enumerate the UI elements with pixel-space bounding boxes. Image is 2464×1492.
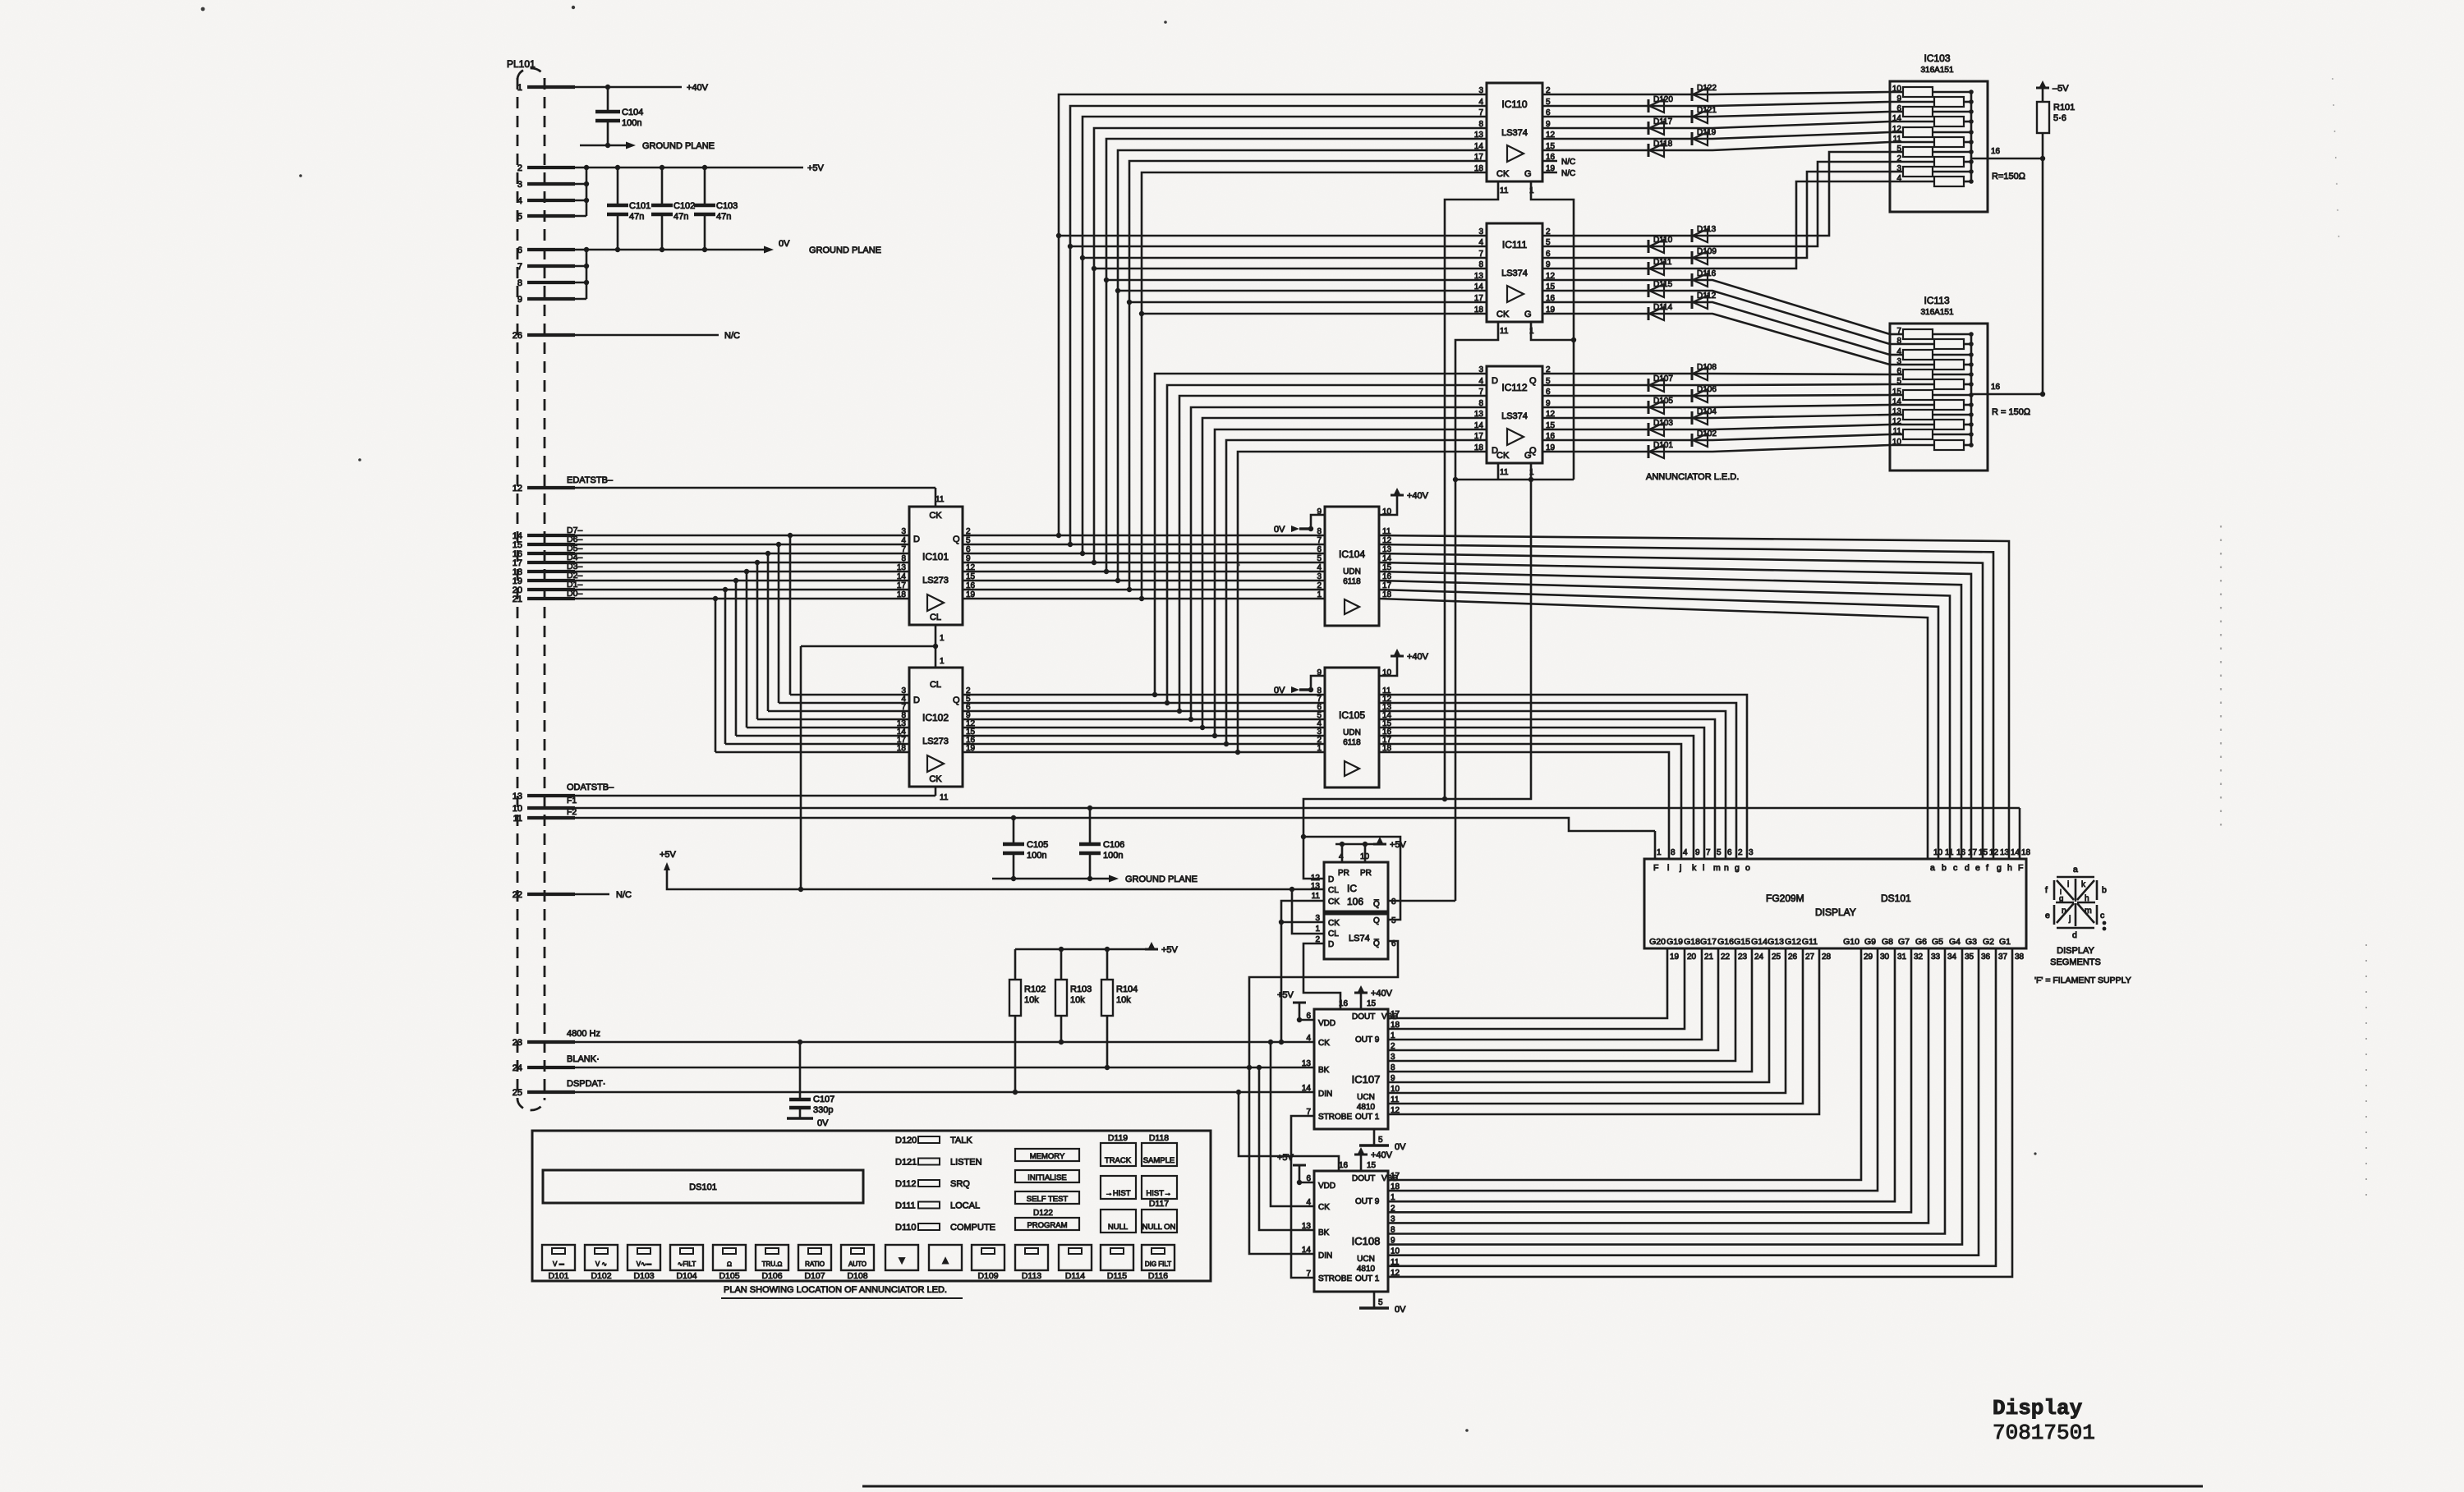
svg-text:1: 1 — [940, 634, 945, 643]
svg-text:GROUND PLANE: GROUND PLANE — [1125, 875, 1198, 884]
svg-text:G17: G17 — [1700, 937, 1717, 947]
svg-text:RATIO: RATIO — [805, 1260, 825, 1268]
svg-text:10: 10 — [1933, 848, 1943, 857]
svg-text:IC108: IC108 — [1352, 1235, 1381, 1247]
svg-text:BK: BK — [1318, 1066, 1330, 1075]
svg-text:D111: D111 — [895, 1201, 916, 1211]
power +5V (IC106 PR) — [1335, 843, 1377, 846]
svg-text:G7: G7 — [1898, 937, 1910, 947]
svg-text:12: 12 — [1989, 848, 1999, 857]
svg-text:Q: Q — [953, 696, 960, 705]
svg-text:j: j — [1679, 863, 1681, 873]
svg-text:▼: ▼ — [897, 1254, 908, 1266]
svg-text:36: 36 — [1981, 953, 1991, 962]
svg-text:33: 33 — [1931, 953, 1941, 962]
LED diode D108 — [1691, 367, 1694, 380]
svg-text:100n: 100n — [1103, 851, 1123, 861]
svg-text:13: 13 — [897, 563, 907, 572]
svg-text:4: 4 — [1339, 852, 1344, 861]
flip-flop IC106 LS74 — [1324, 862, 1388, 911]
wire IC113 common rail — [1970, 334, 1973, 445]
svg-text:▲: ▲ — [940, 1254, 951, 1266]
svg-text:D121: D121 — [895, 1158, 917, 1168]
resistor R103 — [1055, 980, 1067, 1016]
capacitor C105 — [1013, 818, 1015, 844]
svg-text:70817501: 70817501 — [1993, 1421, 2095, 1445]
svg-text:18: 18 — [897, 590, 907, 599]
svg-text:C104: C104 — [622, 108, 643, 117]
panel display window DS101 — [543, 1170, 863, 1203]
panel key NULL ON — [1142, 1210, 1177, 1233]
svg-text:0V: 0V — [1395, 1305, 1406, 1315]
svg-text:DSPDAT·: DSPDAT· — [567, 1079, 605, 1089]
svg-text:10k: 10k — [1024, 995, 1039, 1005]
svg-text:25: 25 — [1772, 953, 1781, 962]
svg-text:10: 10 — [513, 804, 522, 814]
LED diode D101 — [1648, 445, 1650, 458]
wire IC110 G chain — [1531, 181, 1574, 480]
svg-text:21: 21 — [1704, 953, 1714, 962]
panel button D107 — [798, 1245, 831, 1270]
wire data D4 row A — [546, 562, 909, 564]
svg-text:316A151: 316A151 — [1921, 308, 1954, 317]
ground 0V (IC105) — [1311, 676, 1325, 690]
power +40V (IC107) — [1360, 993, 1363, 1009]
svg-text:17: 17 — [1474, 294, 1484, 303]
svg-text:LS74: LS74 — [1349, 934, 1370, 943]
driver IC104 UDN6118 — [1325, 507, 1379, 626]
svg-text:m: m — [1713, 863, 1721, 873]
svg-text:34: 34 — [1947, 953, 1957, 962]
svg-text:COMPUTE: COMPUTE — [950, 1223, 995, 1233]
svg-text:7: 7 — [1317, 536, 1322, 545]
svg-text:STROBE: STROBE — [1318, 1113, 1352, 1122]
svg-text:HIST→: HIST→ — [1146, 1189, 1171, 1198]
svg-text:ANNUNCIATOR L.E.D.: ANNUNCIATOR L.E.D. — [1646, 472, 1739, 482]
svg-text:GROUND PLANE: GROUND PLANE — [642, 141, 715, 151]
svg-text:4: 4 — [1306, 1034, 1311, 1043]
svg-text:D109: D109 — [1697, 247, 1717, 256]
svg-text:h: h — [2007, 863, 2012, 873]
panel button D105 — [713, 1245, 746, 1270]
svg-text:Q: Q — [953, 535, 960, 544]
svg-text:+40V: +40V — [1407, 491, 1429, 501]
wire IC111 outputs to IC103 lower pins — [1542, 152, 1890, 236]
svg-text:1: 1 — [1657, 848, 1662, 857]
svg-text:21: 21 — [513, 595, 522, 604]
LED diode D104 — [1691, 411, 1694, 425]
svg-text:D118: D118 — [1149, 1133, 1169, 1143]
svg-text:DOUT: DOUT — [1352, 1012, 1375, 1021]
svg-text:14: 14 — [897, 572, 907, 581]
svg-text:5: 5 — [517, 212, 522, 222]
svg-text:1: 1 — [517, 83, 522, 93]
wire IC111 input branch — [1106, 279, 1487, 282]
wire BLANK line — [546, 1067, 1314, 1069]
svg-text:IC103: IC103 — [1924, 53, 1951, 64]
ground 0V (IC107) — [1373, 1129, 1376, 1145]
svg-text:5: 5 — [1317, 554, 1322, 563]
svg-text:CL: CL — [930, 613, 941, 622]
panel button D104 — [670, 1245, 703, 1270]
svg-text:PROGRAM: PROGRAM — [1027, 1221, 1067, 1230]
LED diode D118 — [1648, 144, 1650, 157]
svg-text:IC104: IC104 — [1339, 549, 1365, 560]
svg-text:OUT 9: OUT 9 — [1355, 1035, 1380, 1044]
svg-text:LOCAL: LOCAL — [950, 1201, 980, 1211]
svg-text:7: 7 — [1478, 108, 1483, 117]
svg-text:G9: G9 — [1864, 937, 1876, 947]
wire +5V to IC106 CL1 — [1289, 887, 1294, 892]
svg-text:14: 14 — [1474, 142, 1484, 151]
svg-text:N/C: N/C — [616, 890, 632, 900]
panel key &#8594;HIST — [1101, 1176, 1136, 1199]
svg-text:G5: G5 — [1932, 937, 1943, 947]
panel plan outline — [532, 1131, 1211, 1281]
panel button D114 — [1059, 1245, 1092, 1270]
panel button D115 — [1101, 1245, 1133, 1270]
svg-text:+5V: +5V — [660, 850, 677, 860]
svg-text:G3: G3 — [1965, 937, 1977, 947]
svg-text:G15: G15 — [1734, 937, 1750, 947]
svg-text:Q: Q — [1529, 446, 1537, 456]
svg-text:2: 2 — [517, 163, 522, 173]
wire IC106 Qbar8 to CK bus — [1388, 900, 1455, 902]
svg-text:1: 1 — [1317, 590, 1322, 599]
svg-text:D114: D114 — [1065, 1271, 1085, 1281]
svg-text:Q̅: Q̅ — [1373, 939, 1380, 948]
svg-text:F1: F1 — [567, 796, 577, 806]
svg-text:8: 8 — [1671, 848, 1676, 857]
LED diode D111 — [1648, 262, 1650, 275]
wire IC111 input branch — [1142, 313, 1487, 315]
wire pins 7-9 riser — [586, 250, 588, 299]
svg-text:D105: D105 — [719, 1271, 739, 1281]
wire IC103 common rail — [1970, 92, 1973, 181]
svg-text:F2: F2 — [567, 807, 577, 817]
svg-text:1: 1 — [1315, 925, 1320, 934]
svg-text:D101: D101 — [548, 1271, 568, 1281]
svg-text:18: 18 — [1474, 164, 1484, 173]
svg-text:IC101: IC101 — [922, 551, 949, 562]
svg-text:5·6: 5·6 — [2053, 113, 2066, 123]
wire IC101 CL link — [935, 625, 937, 668]
svg-text:OUT 9: OUT 9 — [1355, 1197, 1380, 1206]
svg-text:D102: D102 — [1697, 429, 1717, 438]
svg-text:DIG FILT: DIG FILT — [1145, 1260, 1171, 1268]
svg-text:LISTEN: LISTEN — [950, 1158, 982, 1168]
svg-text:D116: D116 — [1148, 1271, 1168, 1281]
svg-text:7: 7 — [901, 545, 906, 554]
ground 0V (IC108) — [1373, 1292, 1376, 1308]
svg-text:BK: BK — [1318, 1228, 1330, 1237]
wire 4800Hz to IC106 CK11 CK3 — [1281, 901, 1324, 1042]
svg-text:+40V: +40V — [687, 83, 709, 93]
svg-text:G20: G20 — [1649, 937, 1666, 947]
wire bus A verticals to IC110/IC111 — [1059, 94, 1487, 535]
wire +40V — [546, 86, 682, 89]
svg-text:CK: CK — [1318, 1203, 1330, 1212]
panel button D101 — [542, 1245, 575, 1270]
svg-text:D: D — [913, 696, 920, 705]
svg-text:3: 3 — [517, 180, 522, 190]
svg-text:TRACK: TRACK — [1105, 1156, 1132, 1165]
svg-text:31: 31 — [1897, 953, 1907, 962]
svg-text:N/C: N/C — [1561, 169, 1575, 178]
panel button D106 — [756, 1245, 788, 1270]
svg-text:C106: C106 — [1103, 840, 1124, 850]
svg-text:0V: 0V — [817, 1118, 829, 1128]
display DS101 FG209M — [1644, 859, 2026, 948]
svg-text:28: 28 — [1822, 953, 1832, 962]
svg-text:d: d — [2072, 930, 2077, 940]
svg-text:g: g — [2059, 894, 2063, 903]
svg-text:D106: D106 — [761, 1271, 782, 1281]
svg-text:UCN: UCN — [1357, 1255, 1375, 1264]
svg-text:D101: D101 — [1653, 441, 1673, 450]
svg-text:D117: D117 — [1653, 117, 1673, 126]
svg-text:8: 8 — [1478, 399, 1483, 408]
wire IC106 Q5 feedback loop — [1303, 837, 1400, 920]
svg-text:4: 4 — [901, 536, 906, 545]
svg-text:D110: D110 — [1653, 236, 1673, 245]
ground plane arrow (C104) — [580, 145, 626, 147]
wire D12 feedback net — [1303, 480, 1531, 879]
svg-text:F: F — [1653, 863, 1658, 873]
power +5V (pullups) — [1145, 948, 1158, 951]
svg-text:C101: C101 — [629, 201, 650, 211]
svg-text:5: 5 — [1378, 1136, 1383, 1145]
svg-text:CK: CK — [1496, 310, 1510, 319]
svg-text:C102: C102 — [673, 201, 695, 211]
svg-text:16: 16 — [1991, 383, 2001, 392]
svg-text:330p: 330p — [813, 1105, 833, 1115]
svg-text:D119: D119 — [1108, 1133, 1128, 1143]
capacitor C106 — [1089, 808, 1092, 844]
svg-text:LS273: LS273 — [922, 576, 949, 585]
svg-text:i: i — [1667, 863, 1669, 873]
latch IC111 LS374 — [1487, 223, 1542, 322]
svg-text:22: 22 — [1721, 953, 1731, 962]
svg-text:1: 1 — [940, 657, 945, 666]
svg-text:11: 11 — [513, 814, 522, 824]
svg-text:g: g — [1997, 863, 2002, 873]
svg-text:11: 11 — [1312, 892, 1321, 901]
svg-text:→HIST: →HIST — [1105, 1189, 1130, 1198]
svg-text:CK: CK — [929, 511, 942, 521]
svg-text:CK: CK — [1496, 451, 1510, 461]
svg-text:11: 11 — [1500, 327, 1509, 336]
svg-text:MEMORY: MEMORY — [1030, 1152, 1065, 1161]
svg-text:D104: D104 — [1697, 407, 1717, 416]
svg-text:D118: D118 — [1653, 140, 1673, 149]
wire IC111 input branch — [1118, 290, 1487, 292]
svg-text:D102: D102 — [591, 1271, 611, 1281]
svg-text:IC112: IC112 — [1501, 382, 1527, 393]
wire IC111 input branch — [1129, 301, 1487, 304]
svg-text:G12: G12 — [1785, 937, 1801, 947]
panel key SAMPLE — [1142, 1143, 1177, 1166]
svg-text:e: e — [1975, 863, 1980, 873]
svg-text:3: 3 — [1478, 227, 1483, 236]
svg-text:TRU.Ω: TRU.Ω — [762, 1260, 783, 1268]
svg-text:11: 11 — [1500, 186, 1509, 195]
svg-text:NULL: NULL — [1108, 1223, 1128, 1232]
svg-text:LS374: LS374 — [1501, 269, 1528, 278]
svg-text:PR: PR — [1360, 869, 1372, 878]
svg-text:6: 6 — [1317, 545, 1322, 554]
svg-text:LS273: LS273 — [922, 737, 949, 746]
svg-text:13: 13 — [513, 792, 522, 801]
svg-text:IC105: IC105 — [1339, 709, 1365, 721]
svg-text:–5V: –5V — [2053, 84, 2069, 94]
wire BLANK branch to IC108 BK — [1259, 1067, 1314, 1230]
svg-text:8: 8 — [1478, 260, 1483, 269]
svg-text:47n: 47n — [716, 212, 731, 222]
svg-text:CK: CK — [929, 774, 942, 784]
svg-text:D0–: D0– — [567, 589, 582, 599]
svg-text:0V: 0V — [1274, 525, 1285, 535]
LED diode D122 — [1691, 88, 1694, 101]
svg-text:G18: G18 — [1684, 937, 1700, 947]
svg-text:D113: D113 — [1697, 225, 1717, 234]
svg-text:D120: D120 — [1653, 95, 1673, 104]
resistor R102 — [1009, 980, 1021, 1016]
svg-text:CK: CK — [1328, 919, 1340, 928]
svg-text:2: 2 — [1738, 848, 1743, 857]
resistor R101 — [2037, 102, 2049, 133]
svg-text:m: m — [2085, 906, 2092, 916]
svg-text:D122: D122 — [1033, 1209, 1053, 1218]
svg-text:17: 17 — [1474, 432, 1484, 441]
svg-text:+40V: +40V — [1371, 1150, 1393, 1160]
svg-text:SEGMENTS: SEGMENTS — [2050, 957, 2101, 967]
svg-text:DOUT: DOUT — [1352, 1174, 1375, 1183]
LED diode D117 — [1648, 122, 1650, 135]
svg-text:∿FILT: ∿FILT — [678, 1260, 696, 1268]
svg-text:13: 13 — [1311, 882, 1321, 891]
svg-text:D121: D121 — [1697, 106, 1717, 115]
svg-text:FG209M: FG209M — [1766, 893, 1804, 904]
svg-text:100n: 100n — [622, 118, 641, 128]
svg-text:e: e — [2045, 911, 2050, 920]
svg-text:38: 38 — [2015, 953, 2025, 962]
wire IC111 G jog — [1531, 322, 1574, 340]
svg-text:5: 5 — [1391, 916, 1396, 925]
svg-text:TALK: TALK — [950, 1136, 972, 1145]
svg-text:3: 3 — [1749, 848, 1754, 857]
svg-text:BLANK·: BLANK· — [567, 1054, 600, 1064]
svg-text:G13: G13 — [1768, 937, 1784, 947]
wire data D5 row A — [546, 553, 909, 555]
svg-text:29: 29 — [1864, 953, 1873, 962]
svg-text:5: 5 — [1378, 1298, 1383, 1307]
svg-text:D108: D108 — [1697, 363, 1717, 372]
display segments glyph — [2054, 877, 2097, 928]
svg-text:0V: 0V — [1395, 1142, 1406, 1152]
svg-text:0V: 0V — [779, 239, 790, 249]
svg-text:CL: CL — [930, 680, 941, 690]
svg-text:24: 24 — [1754, 953, 1764, 962]
svg-text:3: 3 — [1478, 365, 1483, 374]
svg-text:G8: G8 — [1882, 937, 1893, 947]
svg-text:14: 14 — [1474, 421, 1484, 430]
svg-text:3: 3 — [1317, 572, 1322, 581]
svg-text:13: 13 — [1474, 131, 1484, 140]
svg-text:AUTO: AUTO — [848, 1260, 867, 1268]
svg-text:26: 26 — [513, 331, 522, 341]
panel button D108 — [841, 1245, 874, 1270]
power +5V (IC108) — [1299, 1182, 1314, 1184]
capacitor C107 — [799, 1042, 802, 1099]
svg-text:Ω: Ω — [727, 1260, 732, 1268]
svg-text:316A151: 316A151 — [1921, 66, 1954, 75]
svg-text:4: 4 — [1478, 98, 1483, 107]
svg-text:10: 10 — [1360, 852, 1370, 861]
svg-text:DS101: DS101 — [1881, 893, 1911, 904]
svg-text:G: G — [1524, 169, 1532, 179]
svg-text:25: 25 — [513, 1088, 522, 1098]
svg-text:8: 8 — [901, 554, 906, 563]
svg-text:f: f — [2045, 885, 2048, 895]
svg-text:12: 12 — [513, 484, 522, 494]
wire row B bus IC102 to IC105 — [963, 694, 1325, 696]
svg-text:IC: IC — [1347, 883, 1357, 894]
power +5V (IC107) — [1299, 1019, 1314, 1021]
wire STROBE link IC107-IC108 — [1291, 1116, 1314, 1278]
svg-text:24: 24 — [513, 1063, 522, 1073]
panel key SELF TEST — [1015, 1191, 1079, 1204]
panel button D116 — [1142, 1245, 1175, 1270]
svg-text:8: 8 — [1478, 120, 1483, 129]
svg-text:7: 7 — [1478, 388, 1483, 397]
svg-text:8: 8 — [1317, 527, 1322, 536]
svg-text:c: c — [2100, 911, 2104, 920]
panel button D113 — [1015, 1245, 1048, 1270]
svg-text:G14: G14 — [1751, 937, 1768, 947]
svg-text:CK: CK — [1318, 1039, 1330, 1048]
svg-text:6: 6 — [517, 246, 522, 255]
svg-text:13: 13 — [2000, 848, 2010, 857]
wire IC106 Qbar6 to IC108 DIN — [1249, 941, 1398, 1254]
svg-text:UDN: UDN — [1343, 728, 1361, 737]
svg-text:UDN: UDN — [1343, 567, 1361, 576]
svg-text:k: k — [1692, 863, 1697, 873]
panel key MEMORY — [1015, 1149, 1079, 1161]
svg-text:11: 11 — [935, 495, 945, 504]
LED diode D110 — [1648, 240, 1650, 253]
svg-text:16: 16 — [1339, 1161, 1349, 1170]
panel key TRACK — [1101, 1143, 1136, 1166]
capacitor C104 — [607, 87, 609, 112]
svg-text:14: 14 — [2011, 848, 2020, 857]
panel key HIST&#8594; — [1142, 1176, 1177, 1199]
svg-text:a: a — [1930, 863, 1935, 873]
svg-text:D114: D114 — [1653, 303, 1673, 312]
LED diode D116 — [1691, 273, 1694, 287]
svg-text:D: D — [1492, 446, 1498, 456]
wire ground plane rail (C105 C106) — [992, 878, 1109, 880]
wire IC110 N/C stubs — [1542, 160, 1557, 163]
svg-text:CK: CK — [1328, 897, 1340, 907]
resistor network IC103 316A151 — [1890, 81, 1988, 212]
svg-text:D: D — [1328, 875, 1334, 884]
svg-text:6: 6 — [1727, 848, 1732, 857]
wire 0V ground plane rail — [546, 249, 764, 251]
svg-text:N/C: N/C — [724, 331, 740, 341]
svg-text:+5V: +5V — [1161, 945, 1179, 955]
svg-text:D122: D122 — [1697, 84, 1717, 93]
